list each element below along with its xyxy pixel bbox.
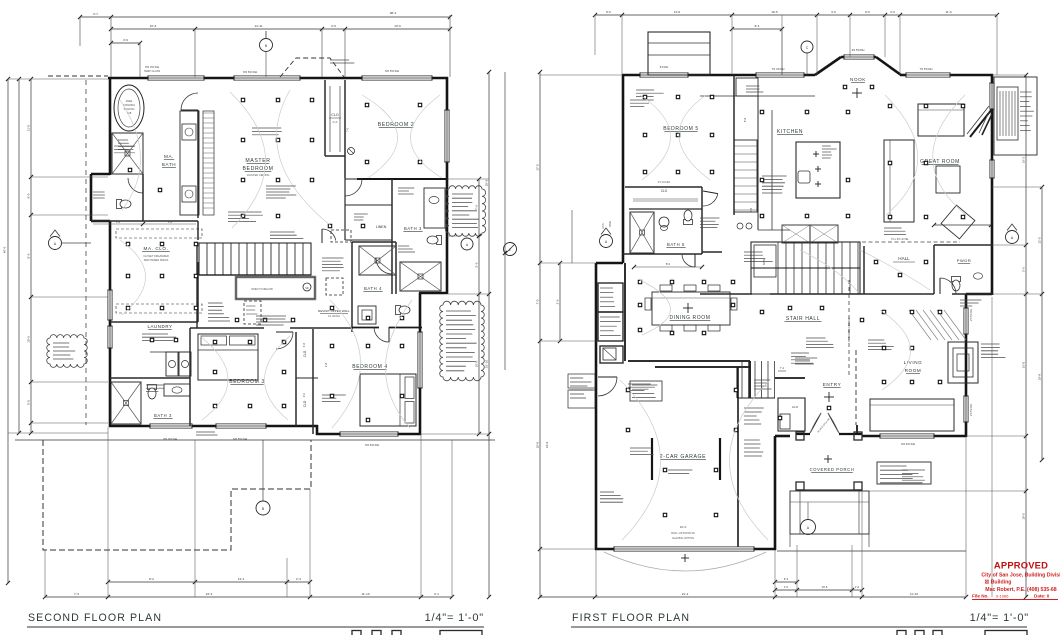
svg-text:2'-6: 2'-6: [555, 299, 559, 304]
svg-text:5'-2: 5'-2: [116, 220, 121, 224]
svg-text:APPROVED: APPROVED: [994, 560, 1048, 571]
svg-text:LIVING: LIVING: [904, 360, 923, 365]
svg-text:24'-3: 24'-3: [206, 592, 213, 596]
svg-text:5'0 SLIDER: 5'0 SLIDER: [658, 181, 671, 184]
svg-text:LAUNDRY: LAUNDRY: [147, 324, 172, 329]
svg-text:10'-0: 10'-0: [474, 360, 478, 367]
svg-text:3'0 3'0 DH: 3'0 3'0 DH: [163, 437, 177, 441]
svg-text:2'-8: 2'-8: [324, 362, 328, 367]
svg-text:COVERED PORCH: COVERED PORCH: [810, 467, 855, 472]
svg-text:14'-11: 14'-11: [254, 24, 262, 28]
svg-text:40'-6: 40'-6: [3, 246, 7, 253]
svg-text:GLAZING OPTION: GLAZING OPTION: [672, 536, 694, 540]
svg-text:BATH 3: BATH 3: [154, 413, 172, 418]
svg-text:BATH 3: BATH 3: [404, 226, 422, 231]
svg-text:21'-2: 21'-2: [682, 592, 689, 596]
svg-text:LINEN: LINEN: [376, 225, 387, 229]
svg-text:BEDROOM 2: BEDROOM 2: [378, 122, 415, 128]
svg-text:7'-3: 7'-3: [74, 592, 79, 596]
svg-text:BEDROOM: BEDROOM: [242, 166, 273, 172]
svg-text:3'-7: 3'-7: [93, 12, 98, 16]
svg-text:6'-4: 6'-4: [784, 577, 789, 581]
svg-text:25'-9: 25'-9: [484, 179, 488, 186]
svg-text:13'-6: 13'-6: [394, 24, 401, 28]
svg-text:9'-0: 9'-0: [865, 10, 870, 14]
svg-text:7'-4: 7'-4: [780, 367, 785, 370]
svg-text:3'-6: 3'-6: [749, 207, 753, 212]
svg-text:17'-0: 17'-0: [535, 164, 539, 171]
svg-text:3'-6: 3'-6: [331, 24, 336, 28]
svg-text:6'0 x 8'0 LINTEL: 6'0 x 8'0 LINTEL: [891, 238, 909, 241]
svg-text:9'-0: 9'-0: [26, 193, 30, 198]
svg-text:ANN: ANN: [608, 221, 612, 227]
svg-text:3'-0: 3'-0: [890, 10, 895, 14]
svg-text:9'-6: 9'-6: [606, 10, 611, 14]
svg-text:3'-1: 3'-1: [434, 592, 439, 596]
svg-text:6'0 5'0 DH: 6'0 5'0 DH: [385, 69, 399, 73]
svg-text:6'0 5'0 DH: 6'0 5'0 DH: [233, 437, 247, 441]
svg-text:HALL: HALL: [898, 256, 910, 261]
svg-text:KITCHEN: KITCHEN: [777, 129, 803, 135]
svg-text:4'0 5'0 DH: 4'0 5'0 DH: [852, 48, 865, 52]
svg-text:☒ Building: ☒ Building: [985, 580, 1012, 586]
svg-text:DINING ROOM: DINING ROOM: [669, 315, 710, 321]
svg-text:7'-6: 7'-6: [474, 205, 478, 210]
svg-text:CLO: CLO: [303, 400, 307, 407]
svg-text:MASTER: MASTER: [245, 158, 270, 164]
svg-text:18'-0: 18'-0: [535, 441, 539, 448]
svg-text:8'-2: 8'-2: [149, 577, 154, 581]
svg-text:2'-3: 2'-3: [296, 577, 301, 581]
svg-text:2'0 5'0 DH: 2'0 5'0 DH: [969, 404, 973, 416]
svg-text:PWDR: PWDR: [957, 258, 972, 263]
svg-text:8'-4: 8'-4: [755, 24, 760, 28]
svg-text:R+S: R+S: [333, 121, 338, 124]
svg-text:MA.: MA.: [164, 154, 174, 159]
svg-text:ENTRY: ENTRY: [823, 382, 842, 387]
svg-text:5'-6: 5'-6: [474, 262, 478, 267]
svg-text:16'-10: 16'-10: [484, 360, 488, 369]
svg-text:6'-8: 6'-8: [743, 117, 747, 122]
svg-text:ROOM: ROOM: [905, 368, 922, 373]
svg-text:BEDROOM 4: BEDROOM 4: [352, 364, 387, 370]
svg-text:2-CAR GARAGE: 2-CAR GARAGE: [660, 454, 706, 460]
svg-text:8'-0: 8'-0: [666, 262, 671, 266]
svg-text:CLO: CLO: [303, 350, 307, 357]
svg-text:3'-0: 3'-0: [831, 10, 836, 14]
svg-text:3'-6: 3'-6: [123, 38, 128, 42]
svg-text:1'-0: 1'-0: [855, 585, 860, 589]
svg-text:12'-0: 12'-0: [1037, 237, 1041, 244]
svg-text:City of San Jose, Building Div: City of San Jose, Building Divisi: [981, 573, 1060, 579]
svg-text:7'-0: 7'-0: [535, 299, 539, 304]
svg-text:38'-2: 38'-2: [390, 11, 397, 15]
svg-text:11'-6: 11'-6: [945, 10, 952, 14]
svg-text:STAIR HALL: STAIR HALL: [786, 316, 820, 322]
svg-text:1/4"= 1'-0": 1/4"= 1'-0": [425, 612, 484, 624]
svg-text:NOOK: NOOK: [850, 77, 866, 82]
svg-text:11'-10: 11'-10: [910, 592, 918, 596]
svg-text:8'-6: 8'-6: [26, 253, 30, 258]
svg-text:OPEN TO BELOW: OPEN TO BELOW: [251, 287, 273, 291]
svg-text:2'0 5'0 DH: 2'0 5'0 DH: [969, 309, 973, 321]
svg-text:4'-6: 4'-6: [302, 342, 306, 347]
svg-text:5'-0: 5'-0: [26, 400, 30, 405]
svg-text:10'-0: 10'-0: [26, 336, 30, 343]
svg-text:FREE: FREE: [126, 100, 133, 103]
svg-text:7'0 4'0 DH: 7'0 4'0 DH: [772, 67, 785, 71]
svg-text:7'0 5'0 DH: 7'0 5'0 DH: [920, 67, 933, 71]
svg-text:Mac Robert, P.E. (408) 535-68: Mac Robert, P.E. (408) 535-68: [985, 587, 1057, 593]
svg-text:CLO: CLO: [792, 405, 799, 409]
svg-text:5'0 4'0 DH: 5'0 4'0 DH: [145, 65, 159, 69]
svg-text:3'-0: 3'-0: [302, 392, 306, 397]
svg-text:TEMP GLASS: TEMP GLASS: [144, 69, 161, 73]
svg-text:6'0 6'0 DH: 6'0 6'0 DH: [901, 442, 915, 446]
svg-text:BATH: BATH: [162, 162, 176, 167]
svg-text:13'-6: 13'-6: [674, 10, 681, 14]
svg-text:5'-2: 5'-2: [168, 220, 173, 224]
svg-text:1/4"= 1'-0": 1/4"= 1'-0": [970, 612, 1029, 624]
svg-text:MA. CLO.: MA. CLO.: [144, 246, 169, 251]
svg-text:6'0 6'0 DH: 6'0 6'0 DH: [243, 70, 257, 74]
svg-text:0-1066: 0-1066: [996, 594, 1009, 599]
svg-text:10'-5: 10'-5: [771, 10, 778, 14]
svg-text:BATH 5: BATH 5: [667, 242, 685, 247]
svg-text:VAULTED CEILING: VAULTED CEILING: [247, 173, 270, 177]
svg-text:6'0 6'0 DH: 6'0 6'0 DH: [365, 443, 379, 447]
svg-text:11'-10: 11'-10: [361, 592, 369, 596]
svg-text:19'-2: 19'-2: [1021, 156, 1025, 163]
svg-text:STANDING: STANDING: [123, 104, 135, 107]
svg-text:11'-0: 11'-0: [26, 124, 30, 131]
svg-text:PER OWNER SPECS: PER OWNER SPECS: [144, 259, 169, 262]
svg-text:10'-5: 10'-5: [822, 585, 828, 589]
svg-text:FIRST FLOOR PLAN: FIRST FLOOR PLAN: [572, 612, 690, 624]
svg-text:16'-0: 16'-0: [1021, 361, 1025, 368]
svg-text:BATH 4: BATH 4: [364, 286, 382, 291]
svg-text:5'-6: 5'-6: [1021, 267, 1025, 272]
svg-text:ANN: ANN: [601, 223, 605, 229]
svg-text:ROLL-UP DOOR W/: ROLL-UP DOOR W/: [671, 531, 695, 535]
svg-text:CLO: CLO: [331, 113, 339, 117]
svg-text:13'-1: 13'-1: [238, 577, 245, 581]
svg-text:Date: 0: Date: 0: [1034, 594, 1050, 599]
svg-text:SD: SD: [305, 287, 309, 290]
svg-text:CLO: CLO: [661, 189, 668, 193]
svg-text:10'-6: 10'-6: [150, 24, 157, 28]
svg-text:6'0 DH: 6'0 DH: [660, 65, 668, 69]
svg-text:16'-0: 16'-0: [680, 525, 687, 529]
svg-text:SECOND FLOOR PLAN: SECOND FLOOR PLAN: [28, 612, 162, 624]
svg-text:STO: STO: [762, 258, 766, 265]
svg-text:CLOSET ORGANIZER: CLOSET ORGANIZER: [143, 255, 169, 258]
svg-text:File No.: File No.: [972, 594, 989, 599]
svg-text:34'-0: 34'-0: [545, 441, 549, 448]
svg-text:18'-0: 18'-0: [1021, 513, 1025, 520]
svg-text:7'-0: 7'-0: [346, 127, 350, 132]
svg-text:1/2 CRAWL: 1/2 CRAWL: [328, 315, 341, 318]
svg-text:18'-8: 18'-8: [1037, 373, 1041, 380]
svg-text:1'-0: 1'-0: [784, 585, 789, 589]
